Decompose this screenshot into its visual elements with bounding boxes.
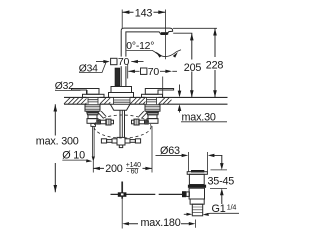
- square70 second label arrows and extensions: [128, 64, 163, 97]
- center shank through deck: [114, 97, 131, 104]
- pull rod bottom arrowhead: [92, 157, 95, 162]
- svg-text:205: 205: [184, 62, 202, 74]
- pull-rod knob beside spout (dark): [115, 68, 120, 86]
- left handle rosette: [83, 94, 105, 97]
- 35-45 extension lines: [210, 170, 227, 189]
- label square70 #1: [109, 57, 131, 67]
- swivel arc with arrowheads: [155, 50, 181, 57]
- left shank through deck: [88, 97, 98, 104]
- dimension 200 line: [93, 167, 152, 169]
- left valve hose connector cluster: [96, 119, 113, 125]
- right handle lever: [145, 89, 173, 95]
- center block right hose: [125, 139, 141, 143]
- waste tailpipe with thread: [192, 204, 202, 216]
- pop-up rod lower joint: [121, 182, 123, 199]
- waste seal ring (dark band): [188, 185, 206, 188]
- right valve elbow stub: [139, 111, 147, 118]
- max.180 left extension (rod axis): [121, 199, 123, 229]
- Ø63 dimension line with outside arrows: [156, 154, 223, 156]
- center connector block: [117, 137, 125, 145]
- svg-text:1/4: 1/4: [227, 203, 237, 212]
- dashed hose swing envelope: [94, 115, 151, 138]
- max.300 dimension line: [54, 104, 56, 192]
- dimension 143 extension lines: [122, 10, 165, 60]
- svg-text:- 60: - 60: [127, 168, 139, 175]
- pop-up pull rod Ø10 below left valve: [93, 126, 95, 157]
- svg-text:max. 300: max. 300: [36, 135, 79, 147]
- label square70 #2: [141, 66, 160, 78]
- left handle lever: [72, 89, 100, 95]
- left valve elbow stub: [98, 111, 106, 118]
- svg-text:35-45: 35-45: [208, 176, 235, 188]
- spout base upper step: [111, 87, 132, 93]
- svg-text:Ø 10: Ø 10: [62, 149, 85, 161]
- svg-text:G1: G1: [212, 203, 226, 215]
- dimension 143 line and arrows: [122, 11, 165, 13]
- svg-text:200: 200: [105, 163, 123, 175]
- dimension 200 extensions: [93, 126, 152, 173]
- svg-text:70: 70: [148, 66, 160, 78]
- svg-text:228: 228: [206, 59, 224, 71]
- countertop hatching: [64, 98, 172, 104]
- countertop deck top line: [64, 96, 228, 98]
- 35-45 dimension line lower: [221, 193, 223, 205]
- pull rod guide nub: [91, 123, 96, 126]
- svg-text:max.180: max.180: [141, 217, 181, 229]
- center block left hose: [101, 139, 117, 143]
- 35-45 dimension line upper: [221, 155, 223, 165]
- dimension 205 extension (aerator level): [173, 32, 192, 34]
- Ø63 extension lines: [189, 152, 208, 172]
- center supply tube: [120, 110, 125, 137]
- spout base plate: [109, 93, 134, 98]
- center block tailpiece: [119, 145, 122, 148]
- waste flange: [187, 172, 207, 175]
- svg-text:143: 143: [135, 8, 153, 20]
- countertop deck bottom line: [64, 103, 228, 105]
- dimension 228 line: [214, 28, 216, 97]
- right valve hose connector cluster: [132, 119, 149, 125]
- left valve body below deck: [85, 105, 100, 123]
- right valve body below deck: [145, 105, 160, 123]
- 0-12 leader underline: [127, 50, 158, 53]
- spout horizontal arm outline: [121, 28, 172, 34]
- center shank flange below deck: [110, 104, 130, 110]
- dimension 228 extension (spout top level): [173, 27, 217, 29]
- dimension 205 line: [191, 33, 193, 97]
- waste locknut block: [190, 199, 204, 204]
- max.30 dimension arrows: [179, 85, 181, 113]
- spout aerator (dark): [161, 32, 168, 35]
- label G1 1/4: [210, 212, 240, 214]
- pop-up waste plug cap (dark): [191, 170, 204, 173]
- max.180 dimension line: [127, 223, 192, 225]
- right shank through deck: [147, 97, 157, 104]
- waste horizontal lever rod: [111, 193, 183, 195]
- right handle rosette: [142, 94, 163, 97]
- square70 first label arrows: [96, 61, 144, 63]
- spout riser neck: [121, 31, 126, 87]
- waste upper body: [189, 174, 204, 184]
- waste lower body: [189, 188, 204, 199]
- waste lever port nut (dark): [182, 191, 186, 197]
- tail thread dimension arrows: [184, 213, 187, 215]
